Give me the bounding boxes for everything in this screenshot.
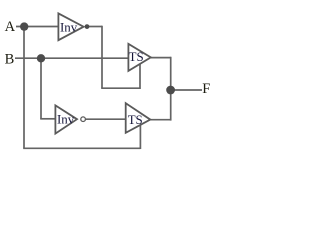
wire TS2 output [150,119,170,121]
wire TS2 enable vertical [139,123,141,149]
wire loop across to TS1 enable [101,87,140,89]
wire inverter U1 output [87,26,102,28]
wire A branch down left side [23,27,25,149]
wire U1 output down [101,26,103,88]
wire bottom run to TS2 enable [23,147,140,149]
svg-text:Inv: Inv [57,112,75,126]
wire to output F [171,89,202,91]
wire output bus vertical [170,57,172,121]
junction dot on net A [20,22,28,30]
svg-text:B: B [5,51,15,67]
tri-state buffer TS1 [128,44,150,71]
wire B input to buffer TS1 [15,57,128,59]
tri-state buffer TS2 [126,103,151,133]
wire B branch down [40,58,42,119]
wire B branch into inverter U2 [40,118,55,120]
inverter U2 (Inv) with output bubble [55,105,85,133]
svg-text:A: A [5,19,16,35]
wire A input to inverter U1 [16,26,58,28]
junction dot at output node F [166,86,175,95]
svg-text:F: F [202,81,210,97]
svg-text:Inv: Inv [60,20,78,34]
wire TS1 enable vertical [139,64,141,89]
inverter U1 (Inv) [58,13,83,40]
junction dot on net B [37,54,45,62]
wire TS1 output [151,57,171,59]
svg-text:TS: TS [129,50,144,64]
junction dot at U1 output [85,24,90,29]
wire inverter U2 output to buffer TS2 [86,118,127,120]
svg-text:TS: TS [128,113,143,127]
